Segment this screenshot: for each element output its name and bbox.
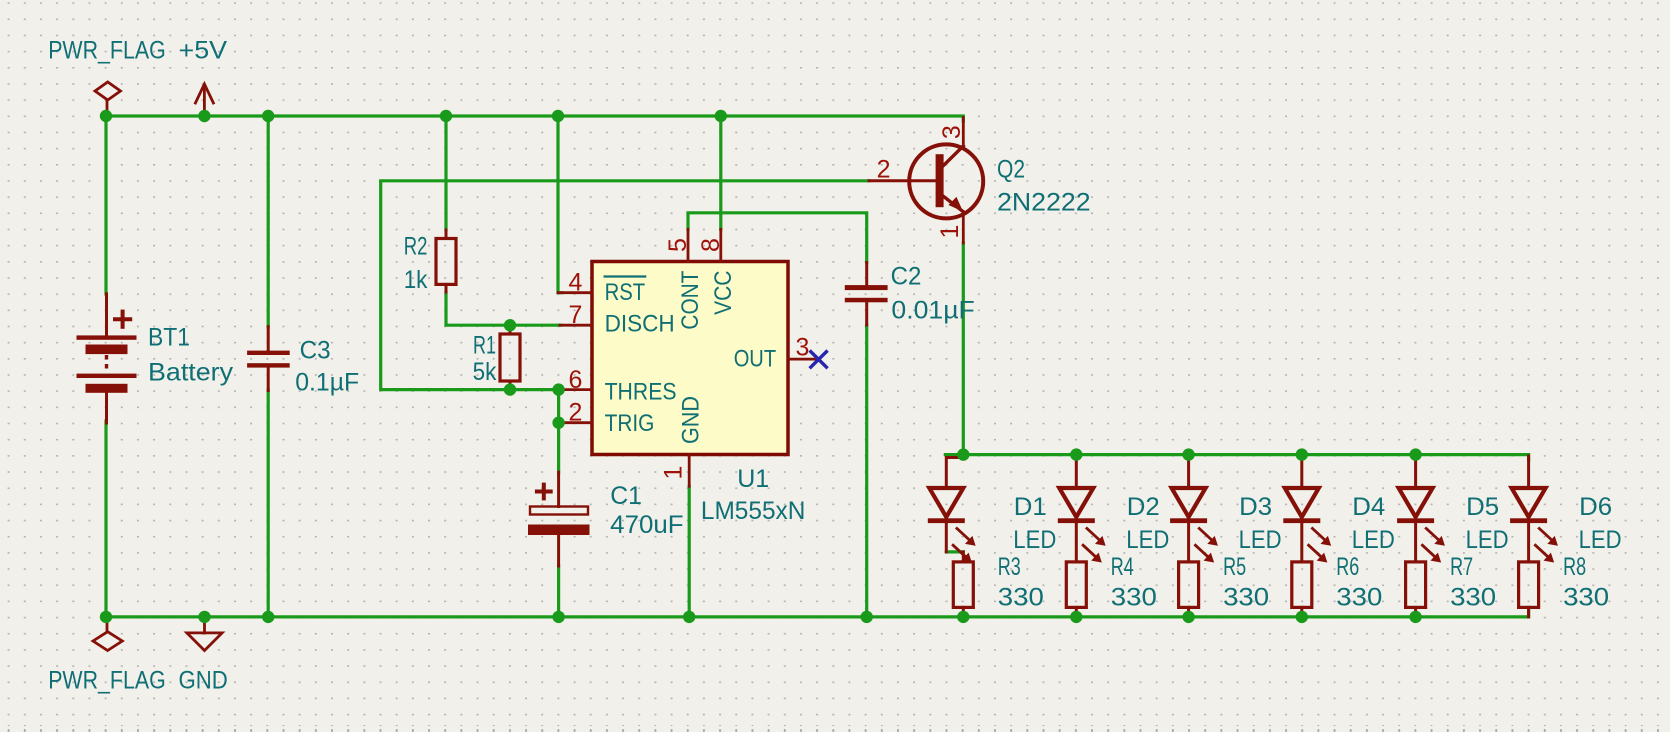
svg-text:6: 6	[568, 366, 582, 394]
capacitor C3	[267, 327, 270, 351]
no-connect X on OUT	[810, 351, 828, 369]
svg-text:R3: R3	[998, 553, 1021, 581]
wire D1 cathode jog	[946, 550, 963, 553]
wire Q2 emitter down	[962, 243, 965, 455]
resistor R4 330	[1066, 562, 1086, 608]
svg-text:C3: C3	[300, 337, 331, 365]
svg-text:R1: R1	[473, 332, 496, 360]
wire U1 GND pin 1 down	[688, 486, 691, 617]
svg-text:0.1µF: 0.1µF	[295, 369, 359, 397]
wire THRES to TRIG to C1	[557, 390, 560, 473]
svg-text:2: 2	[568, 399, 582, 427]
power flag PWR_FLAG top	[106, 100, 109, 116]
svg-text:+5V: +5V	[179, 36, 228, 64]
pin 2 TRIG	[560, 421, 592, 424]
svg-text:LED: LED	[1239, 526, 1282, 554]
pin 1 GND	[688, 455, 691, 487]
svg-text:D4: D4	[1352, 493, 1385, 521]
pin 3 OUT	[788, 358, 819, 361]
wire R2 top feed	[444, 116, 447, 230]
svg-text:1k: 1k	[404, 266, 428, 294]
wire C2 bottom	[865, 325, 868, 617]
svg-text:330: 330	[1563, 584, 1609, 612]
wire C3 top	[267, 116, 270, 327]
LED D2	[1075, 456, 1078, 488]
svg-text:R7: R7	[1450, 553, 1473, 581]
svg-text:D3: D3	[1239, 493, 1272, 521]
svg-text:470uF: 470uF	[610, 511, 683, 539]
pin 8 VCC	[719, 229, 722, 261]
wire BT1 top	[104, 116, 107, 294]
pin 6 THRES	[560, 388, 592, 391]
svg-text:THRES: THRES	[605, 379, 677, 406]
svg-text:LED: LED	[1352, 526, 1395, 554]
svg-text:LED: LED	[1579, 526, 1622, 554]
svg-text:TRIG: TRIG	[605, 410, 655, 437]
svg-text:OUT: OUT	[734, 346, 777, 373]
svg-text:4: 4	[568, 269, 582, 297]
svg-text:RST: RST	[605, 279, 646, 306]
svg-text:R2: R2	[404, 233, 428, 261]
op-amp U1 LM555xN body	[592, 262, 788, 455]
resistor R1 5k	[509, 325, 512, 334]
svg-text:1: 1	[936, 225, 964, 239]
junction dots	[100, 110, 112, 122]
resistor R3 330	[962, 552, 965, 562]
power symbol +5V	[203, 86, 206, 116]
svg-text:LM555xN: LM555xN	[701, 497, 806, 525]
svg-text:330: 330	[1111, 584, 1157, 612]
svg-text:7: 7	[568, 301, 582, 329]
pin 1 emitter	[962, 212, 965, 243]
wire +5V to VCC pin 8	[719, 116, 722, 229]
LED D1	[946, 458, 963, 489]
wire Q2 base to THRES loop	[381, 181, 869, 390]
svg-text:DISCH: DISCH	[605, 311, 675, 338]
svg-text:R6: R6	[1336, 553, 1359, 581]
svg-text:LED: LED	[1013, 526, 1056, 554]
pin 7 DISCH	[560, 324, 592, 327]
svg-text:0.01µF: 0.01µF	[891, 297, 974, 325]
svg-text:3: 3	[938, 125, 966, 139]
svg-text:8: 8	[697, 238, 725, 252]
svg-text:D5: D5	[1466, 493, 1499, 521]
wire C1 bottom	[557, 566, 560, 617]
svg-text:CONT: CONT	[677, 270, 704, 329]
svg-text:330: 330	[1223, 584, 1269, 612]
svg-text:5: 5	[664, 238, 692, 252]
svg-text:5k: 5k	[473, 358, 497, 386]
svg-text:3: 3	[795, 334, 809, 362]
svg-text:C2: C2	[891, 263, 922, 291]
svg-text:GND: GND	[179, 666, 228, 694]
battery BT1	[105, 294, 108, 336]
svg-text:LED: LED	[1466, 526, 1509, 554]
wire TRIG stub	[559, 421, 562, 424]
svg-text:2N2222: 2N2222	[997, 189, 1091, 217]
LED D4	[1300, 456, 1303, 488]
resistor R2 1k	[445, 230, 448, 239]
svg-text:D2: D2	[1127, 493, 1160, 521]
LED D6	[1527, 456, 1530, 488]
pin 5 CONT	[687, 229, 690, 261]
pin 3 collector	[962, 118, 965, 147]
wire C3 bottom	[267, 390, 270, 617]
svg-text:VCC: VCC	[710, 271, 737, 315]
svg-text:330: 330	[1336, 584, 1382, 612]
svg-text:Q2: Q2	[997, 156, 1025, 184]
wire +5V top rail	[106, 116, 963, 121]
wire +5V to RST pin 4	[558, 116, 562, 293]
power flag PWR_FLAG bottom	[106, 617, 109, 632]
capacitor C1 470uF polarized	[557, 472, 560, 506]
resistor R7 330	[1406, 562, 1426, 608]
transistor Q2 2N2222	[909, 144, 983, 218]
svg-text:U1: U1	[737, 465, 769, 493]
svg-text:330: 330	[998, 584, 1044, 612]
svg-text:Battery: Battery	[148, 359, 234, 387]
svg-text:R5: R5	[1223, 553, 1246, 581]
wire R2 bottom to DISCH pin 7	[446, 292, 561, 325]
wire GND bottom rail	[106, 611, 1529, 617]
svg-text:D6: D6	[1579, 493, 1612, 521]
resistor R6 330	[1292, 562, 1312, 608]
svg-text:C1: C1	[610, 482, 642, 510]
pin 4 RST	[558, 291, 592, 294]
svg-text:BT1: BT1	[148, 324, 190, 352]
svg-text:PWR_FLAG: PWR_FLAG	[48, 666, 166, 694]
power symbol GND	[203, 617, 206, 633]
svg-text:2: 2	[877, 156, 891, 184]
svg-text:1: 1	[660, 466, 688, 480]
capacitor C2 0.01uF	[865, 263, 868, 286]
resistor R8 330	[1519, 562, 1539, 608]
LED D3	[1187, 456, 1190, 488]
svg-text:GND: GND	[678, 396, 705, 444]
wire LED top rail	[945, 455, 1528, 460]
wire BT1 bottom	[104, 421, 107, 617]
svg-text:D1: D1	[1014, 493, 1047, 521]
svg-text:330: 330	[1450, 584, 1496, 612]
wire CONT pin 5 to C2	[688, 213, 867, 263]
LED D5	[1414, 456, 1417, 488]
svg-text:LED: LED	[1126, 526, 1169, 554]
svg-text:PWR_FLAG: PWR_FLAG	[48, 36, 166, 64]
resistor R5 330	[1179, 562, 1199, 608]
svg-text:R8: R8	[1563, 553, 1586, 581]
svg-text:R4: R4	[1111, 553, 1134, 581]
